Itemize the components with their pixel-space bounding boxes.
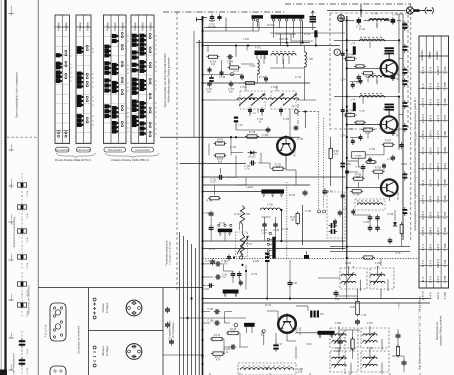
svg-text:6,2 V: 6,2 V — [436, 99, 440, 106]
svg-text:Punkte: Punkte — [85, 22, 89, 31]
svg-text:T 744: T 744 — [443, 163, 447, 171]
svg-text:0,77 V: 0,77 V — [421, 98, 425, 107]
svg-text:T 744: T 744 — [443, 66, 447, 74]
svg-text:11 V: 11 V — [421, 83, 425, 89]
svg-text:12: 12 — [127, 127, 129, 129]
svg-text:0,77 V: 0,77 V — [421, 195, 425, 204]
svg-text:12: 12 — [92, 86, 94, 88]
svg-text:C 726: C 726 — [250, 113, 256, 115]
svg-text:4,4 V: 4,4 V — [428, 292, 432, 299]
svg-text:C 722: C 722 — [203, 213, 210, 215]
svg-text:C 158: C 158 — [27, 190, 29, 197]
svg-text:11,5 V: 11,5 V — [436, 130, 440, 138]
svg-text:T 748: T 748 — [443, 131, 447, 139]
svg-text:L 705: L 705 — [307, 59, 313, 61]
svg-text:12: 12 — [127, 108, 129, 110]
svg-text:T 745: T 745 — [443, 82, 447, 90]
svg-text:12: 12 — [92, 82, 94, 84]
svg-text:3,28: 3,28 — [298, 372, 303, 374]
svg-text:C 158: C 158 — [27, 236, 29, 243]
svg-text:12: 12 — [127, 69, 129, 71]
svg-text:R 717: R 717 — [246, 244, 253, 246]
svg-text:R 758: R 758 — [375, 168, 382, 170]
svg-text:12: 12 — [92, 78, 94, 80]
svg-text:C 725: C 725 — [283, 119, 290, 121]
svg-text:C 744: C 744 — [359, 29, 366, 31]
svg-text:6,3 V: 6,3 V — [436, 179, 440, 186]
svg-text:u 47n: u 47n — [222, 264, 228, 266]
svg-text:L 704: L 704 — [243, 39, 249, 41]
svg-text:Punkte: Punkte — [105, 22, 109, 31]
svg-text:5,7 V: 5,7 V — [421, 260, 425, 267]
svg-text:u 7n: u 7n — [245, 168, 250, 170]
svg-text:L 74: L 74 — [351, 100, 356, 102]
svg-text:12: 12 — [155, 112, 157, 114]
svg-text:0,84 V: 0,84 V — [436, 163, 440, 172]
svg-text:C 74: C 74 — [341, 79, 347, 81]
svg-text:6,2 V: 6,2 V — [436, 196, 440, 203]
svg-text:12: 12 — [127, 87, 129, 89]
svg-text:12: 12 — [155, 53, 157, 55]
svg-text:1: 1 — [336, 51, 338, 55]
svg-text:C 763: C 763 — [387, 159, 394, 161]
svg-text:C 757: C 757 — [383, 109, 390, 111]
svg-text:12: 12 — [155, 67, 157, 69]
svg-text:Obenansicht: Obenansicht — [108, 149, 122, 152]
svg-text:Fernbedienungsbuchse: Fernbedienungsbuchse — [166, 240, 169, 266]
svg-text:12: 12 — [155, 134, 157, 136]
svg-text:C 75: C 75 — [360, 111, 366, 113]
svg-text:C 76: C 76 — [356, 167, 362, 169]
svg-text:Röhrenvoltmeter gegen Chassis: Röhrenvoltmeter gegen Chassis gemessen — [167, 56, 170, 103]
svg-text:Service: Service — [10, 293, 13, 301]
svg-text:12: 12 — [127, 123, 129, 125]
svg-text:R 720: R 720 — [289, 195, 296, 197]
svg-text:C 736: C 736 — [297, 139, 304, 141]
svg-text:AF 106: AF 106 — [299, 327, 302, 335]
svg-text:12: 12 — [70, 81, 72, 83]
svg-text:R 74: R 74 — [366, 77, 372, 79]
svg-text:gemessen: gemessen — [11, 214, 13, 225]
svg-text:Spannungsangaben sind ohne Sig: Spannungsangaben sind ohne Signal mit ho… — [414, 97, 417, 231]
svg-text:6,3 V: 6,3 V — [436, 276, 440, 283]
svg-text:T 748: T 748 — [443, 227, 447, 235]
svg-text:12: 12 — [127, 116, 129, 118]
svg-text:12: 12 — [92, 101, 94, 103]
svg-text:12: 12 — [155, 103, 157, 105]
svg-text:BF 167: BF 167 — [397, 191, 400, 199]
svg-text:12: 12 — [127, 36, 129, 38]
svg-text:C 734: C 734 — [305, 211, 312, 213]
svg-text:C 158: C 158 — [27, 262, 29, 269]
svg-text:6,2 V: 6,2 V — [436, 292, 440, 299]
svg-text:12: 12 — [70, 77, 72, 79]
svg-text:1,7 V: 1,7 V — [428, 67, 432, 74]
svg-text:Basis: Basis — [428, 51, 432, 58]
svg-text:R 712: R 712 — [259, 77, 266, 79]
svg-text:C 74: C 74 — [356, 83, 362, 85]
svg-text:C 179: C 179 — [251, 274, 258, 276]
svg-text:12: 12 — [155, 85, 157, 87]
svg-text:12: 12 — [127, 112, 129, 114]
svg-text:Punkte: Punkte — [133, 22, 137, 31]
svg-text:5,5MHz: 5,5MHz — [355, 155, 363, 157]
svg-text:C 158: C 158 — [27, 212, 29, 219]
svg-text:T 746: T 746 — [443, 195, 447, 203]
svg-text:T 749: T 749 — [443, 243, 447, 251]
svg-text:F 256: F 256 — [335, 323, 342, 325]
svg-text:12: 12 — [92, 48, 94, 50]
svg-text:6,1 V: 6,1 V — [436, 147, 440, 154]
svg-text:Collector: Collector — [420, 49, 424, 60]
svg-text:4,7 V: 4,7 V — [421, 147, 425, 154]
svg-text:Umlenk-Punkte F2/E 2584 (1: Umlenk-Punkte F2/E 2584 (1 — [111, 158, 150, 162]
svg-text:C 761: C 761 — [345, 164, 352, 166]
svg-text:5,75 V: 5,75 V — [421, 130, 425, 139]
svg-text:11,5 V: 11,5 V — [436, 227, 440, 235]
svg-text:L 705: L 705 — [267, 205, 273, 207]
svg-text:C 762: C 762 — [401, 164, 408, 166]
svg-text:C 721: C 721 — [209, 249, 216, 251]
svg-text:12: 12 — [92, 97, 94, 99]
svg-text:R 76: R 76 — [396, 253, 402, 255]
svg-text:T 747: T 747 — [443, 114, 447, 122]
svg-text:Bedienteil: Bedienteil — [10, 178, 13, 188]
svg-text:C 711: C 711 — [295, 77, 302, 79]
svg-text:C 17: C 17 — [278, 344, 284, 346]
svg-text:0,77 V: 0,77 V — [421, 291, 425, 300]
svg-text:F 260: F 260 — [399, 302, 401, 308]
svg-text:Drucktasten am Bedienteil: Drucktasten am Bedienteil — [78, 326, 81, 354]
svg-text:12: 12 — [92, 125, 94, 127]
svg-text:R 182: R 182 — [253, 261, 260, 263]
svg-text:C 74: C 74 — [356, 26, 362, 28]
svg-text:C 158: C 158 — [27, 367, 29, 374]
svg-text:Bedienteil am Fernbedienung: Bedienteil am Fernbedienung — [13, 216, 16, 247]
svg-text:C 176: C 176 — [317, 314, 324, 316]
svg-text:R 175: R 175 — [214, 335, 221, 337]
svg-text:1,7 V: 1,7 V — [428, 260, 432, 267]
svg-text:12: 12 — [127, 41, 129, 43]
svg-text:0,84 V: 0,84 V — [436, 66, 440, 75]
svg-text:12: 12 — [70, 67, 72, 69]
svg-text:0,9 V: 0,9 V — [428, 147, 432, 154]
svg-text:C 760: C 760 — [369, 149, 376, 151]
svg-text:C 733: C 733 — [282, 229, 289, 231]
svg-text:12: 12 — [70, 55, 72, 57]
svg-text:C 748: C 748 — [392, 15, 399, 17]
svg-text:T 746: T 746 — [443, 98, 447, 106]
svg-text:12: 12 — [127, 131, 129, 133]
svg-text:R 702: R 702 — [233, 71, 240, 73]
svg-text:F 702: F 702 — [240, 87, 247, 89]
svg-text:0,74 V: 0,74 V — [421, 211, 425, 220]
svg-text:Minuspol: Minuspol — [102, 346, 105, 356]
svg-text:12: 12 — [155, 108, 157, 110]
svg-text:Leitung bzw. Rückg. geändert: Leitung bzw. Rückg. geändert — [440, 316, 443, 347]
svg-text:im Empfänger: im Empfänger — [172, 322, 175, 338]
svg-text:5,9 V: 5,9 V — [428, 212, 432, 219]
svg-text:Impulse: Impulse — [11, 253, 13, 261]
svg-text:R 714: R 714 — [234, 214, 241, 216]
svg-text:Emitter: Emitter — [435, 51, 439, 60]
svg-text:Rö 701: Rö 701 — [267, 25, 275, 27]
svg-text:Wippe: Wippe — [11, 332, 13, 339]
svg-text:Punkte: Punkte — [113, 22, 117, 31]
svg-text:R 713: R 713 — [230, 147, 237, 149]
svg-text:12: 12 — [70, 73, 72, 75]
svg-text:Punkte: Punkte — [120, 22, 124, 31]
svg-text:L 741: L 741 — [372, 14, 378, 16]
svg-text:R 715: R 715 — [219, 223, 226, 225]
svg-text:12: 12 — [92, 52, 94, 54]
svg-text:12: 12 — [155, 124, 157, 126]
svg-text:2,1 V: 2,1 V — [436, 115, 440, 122]
svg-text:0,74 V: 0,74 V — [421, 114, 425, 123]
svg-text:R 74: R 74 — [366, 133, 372, 135]
svg-text:T 746: T 746 — [443, 292, 447, 300]
svg-text:C 186: C 186 — [207, 321, 214, 323]
svg-text:R 16: R 16 — [307, 344, 313, 346]
svg-text:C 72: C 72 — [205, 261, 211, 263]
svg-text:5,7 V: 5,7 V — [428, 83, 432, 90]
svg-text:R 757: R 757 — [385, 141, 392, 143]
svg-text:4,7 V: 4,7 V — [421, 244, 425, 251]
svg-text:C 709: C 709 — [219, 77, 226, 79]
svg-text:Bei Reparaturen am Fernbedien: Bei Reparaturen am Fernbedienteil — [13, 353, 16, 375]
svg-text:Lautst.: Lautst. — [247, 186, 254, 189]
svg-text:5,75 V: 5,75 V — [421, 227, 425, 236]
svg-text:L 75: L 75 — [343, 209, 348, 211]
svg-text:C 48: C 48 — [292, 283, 298, 285]
svg-text:0,9 V: 0,9 V — [428, 244, 432, 251]
svg-text:u 7n: u 7n — [211, 182, 216, 184]
svg-text:12: 12 — [155, 129, 157, 131]
svg-text:C 187: C 187 — [207, 309, 214, 311]
svg-text:R 760: R 760 — [353, 195, 360, 197]
svg-text:AA 112: AA 112 — [248, 156, 256, 159]
svg-text:5,7 V: 5,7 V — [421, 163, 425, 170]
svg-text:L 703: L 703 — [249, 66, 255, 68]
svg-text:L 74: L 74 — [351, 43, 356, 45]
svg-text:12: 12 — [155, 62, 157, 64]
svg-text:1,84 V: 1,84 V — [428, 130, 432, 139]
svg-text:1,84 V: 1,84 V — [428, 227, 432, 236]
svg-text:T 745: T 745 — [443, 275, 447, 283]
svg-text:F 254: F 254 — [345, 263, 352, 265]
svg-text:11 V: 11 V — [421, 180, 425, 186]
svg-text:12: 12 — [127, 91, 129, 93]
svg-text:F 703: F 703 — [271, 87, 278, 89]
svg-text:C 16: C 16 — [334, 351, 340, 353]
svg-text:an Wippe: an Wippe — [106, 345, 109, 356]
svg-text:R 704: R 704 — [206, 201, 213, 203]
svg-text:4,4 V: 4,4 V — [428, 196, 432, 203]
svg-text:T 749: T 749 — [443, 147, 447, 155]
svg-text:Punkte: Punkte — [57, 22, 61, 31]
svg-text:C 180: C 180 — [203, 289, 210, 291]
svg-text:an Wippe: an Wippe — [106, 302, 109, 313]
svg-text:1,7 V: 1,7 V — [428, 163, 432, 170]
svg-text:F 01 u. F 02: F 01 u. F 02 — [46, 324, 48, 337]
svg-text:12: 12 — [155, 49, 157, 51]
svg-text:12: 12 — [127, 83, 129, 85]
svg-text:Untenansicht: Untenansicht — [76, 149, 91, 152]
svg-text:12: 12 — [92, 116, 94, 118]
svg-text:PCF 801: PCF 801 — [279, 39, 289, 41]
svg-text:T 747: T 747 — [443, 211, 447, 219]
svg-text:6,1 V: 6,1 V — [436, 244, 440, 251]
svg-text:F 701: F 701 — [255, 48, 262, 50]
svg-text:Supt. Elektronenstrahlen gemes: Supt. Elektronenstrahlen gemessen, Nr. T… — [418, 295, 421, 370]
svg-text:C 25: C 25 — [362, 315, 368, 317]
svg-text:12: 12 — [155, 89, 157, 91]
svg-text:Untenansicht: Untenansicht — [135, 149, 150, 152]
svg-text:4,4 V: 4,4 V — [428, 99, 432, 106]
svg-text:Impulse: Impulse — [11, 143, 13, 151]
svg-text:C 728: C 728 — [262, 135, 269, 137]
svg-text:F 255: F 255 — [375, 263, 382, 265]
svg-text:Spannungsabgleich oben angegeb: Spannungsabgleich oben angegeben — [15, 71, 19, 118]
svg-text:Bestückseite am Widerstand: Bestückseite am Widerstand — [28, 285, 31, 315]
svg-text:R 719: R 719 — [249, 132, 256, 134]
svg-text:0,84 V: 0,84 V — [436, 259, 440, 268]
svg-text:Obenansicht: Obenansicht — [55, 149, 69, 152]
svg-text:Lochungen auf die Stifte: Lochungen auf die Stifte — [169, 240, 172, 264]
svg-text:12: 12 — [155, 40, 157, 42]
svg-text:Plustast: Plustast — [102, 303, 105, 312]
svg-text:12: 12 — [92, 74, 94, 76]
svg-text:Punkte: Punkte — [64, 22, 68, 31]
svg-text:R 709: R 709 — [304, 34, 311, 36]
svg-text:12: 12 — [70, 64, 72, 66]
svg-text:Druck-Punkte REE 2070 (1: Druck-Punkte REE 2070 (1 — [55, 158, 92, 162]
svg-text:C 26: C 26 — [335, 299, 341, 301]
svg-text:C 158: C 158 — [27, 348, 29, 355]
svg-text:C 158: C 158 — [27, 289, 29, 296]
svg-text:Bestückseite am: Bestückseite am — [436, 322, 439, 340]
svg-text:11 V: 11 V — [421, 277, 425, 283]
svg-text:F 258: F 258 — [335, 348, 342, 350]
svg-text:12: 12 — [92, 105, 94, 107]
svg-text:C 766: C 766 — [363, 222, 370, 224]
svg-text:12: 12 — [92, 121, 94, 123]
svg-text:12: 12 — [155, 71, 157, 73]
svg-text:Technische: Technische — [11, 5, 13, 17]
svg-text:R 26: R 26 — [350, 307, 356, 309]
svg-text:12: 12 — [127, 73, 129, 75]
svg-text:12: 12 — [155, 36, 157, 38]
svg-text:12: 12 — [155, 116, 157, 118]
svg-text:AF 106: AF 106 — [294, 149, 297, 157]
svg-text:12: 12 — [127, 65, 129, 67]
svg-text:12: 12 — [155, 45, 157, 47]
svg-text:5,7 V: 5,7 V — [421, 67, 425, 74]
svg-text:Punkte: Punkte — [148, 22, 152, 31]
svg-text:5,7 V: 5,7 V — [428, 276, 432, 283]
svg-text:C 74: C 74 — [341, 136, 347, 138]
svg-text:C 158: C 158 — [27, 310, 29, 317]
svg-text:T 744: T 744 — [443, 259, 447, 267]
svg-text:2,1 V: 2,1 V — [436, 212, 440, 219]
svg-text:C 75: C 75 — [384, 54, 390, 56]
svg-text:T 745: T 745 — [443, 179, 447, 187]
svg-text:5,9 V: 5,9 V — [428, 115, 432, 122]
svg-text:C 768: C 768 — [387, 214, 394, 216]
svg-text:R 748: R 748 — [347, 129, 354, 131]
svg-text:L 706: L 706 — [244, 214, 250, 216]
svg-text:6,3 V: 6,3 V — [436, 83, 440, 90]
svg-text:C 729: C 729 — [273, 230, 280, 232]
svg-text:12: 12 — [155, 81, 157, 83]
svg-text:F 259: F 259 — [367, 348, 374, 350]
svg-text:5,7 V: 5,7 V — [428, 179, 432, 186]
svg-text:Punkte: Punkte — [141, 22, 145, 31]
svg-text:R 172: R 172 — [265, 305, 272, 307]
svg-text:F 257: F 257 — [367, 323, 374, 325]
svg-text:C 72: C 72 — [238, 125, 244, 127]
svg-text:Punkte: Punkte — [78, 22, 82, 31]
